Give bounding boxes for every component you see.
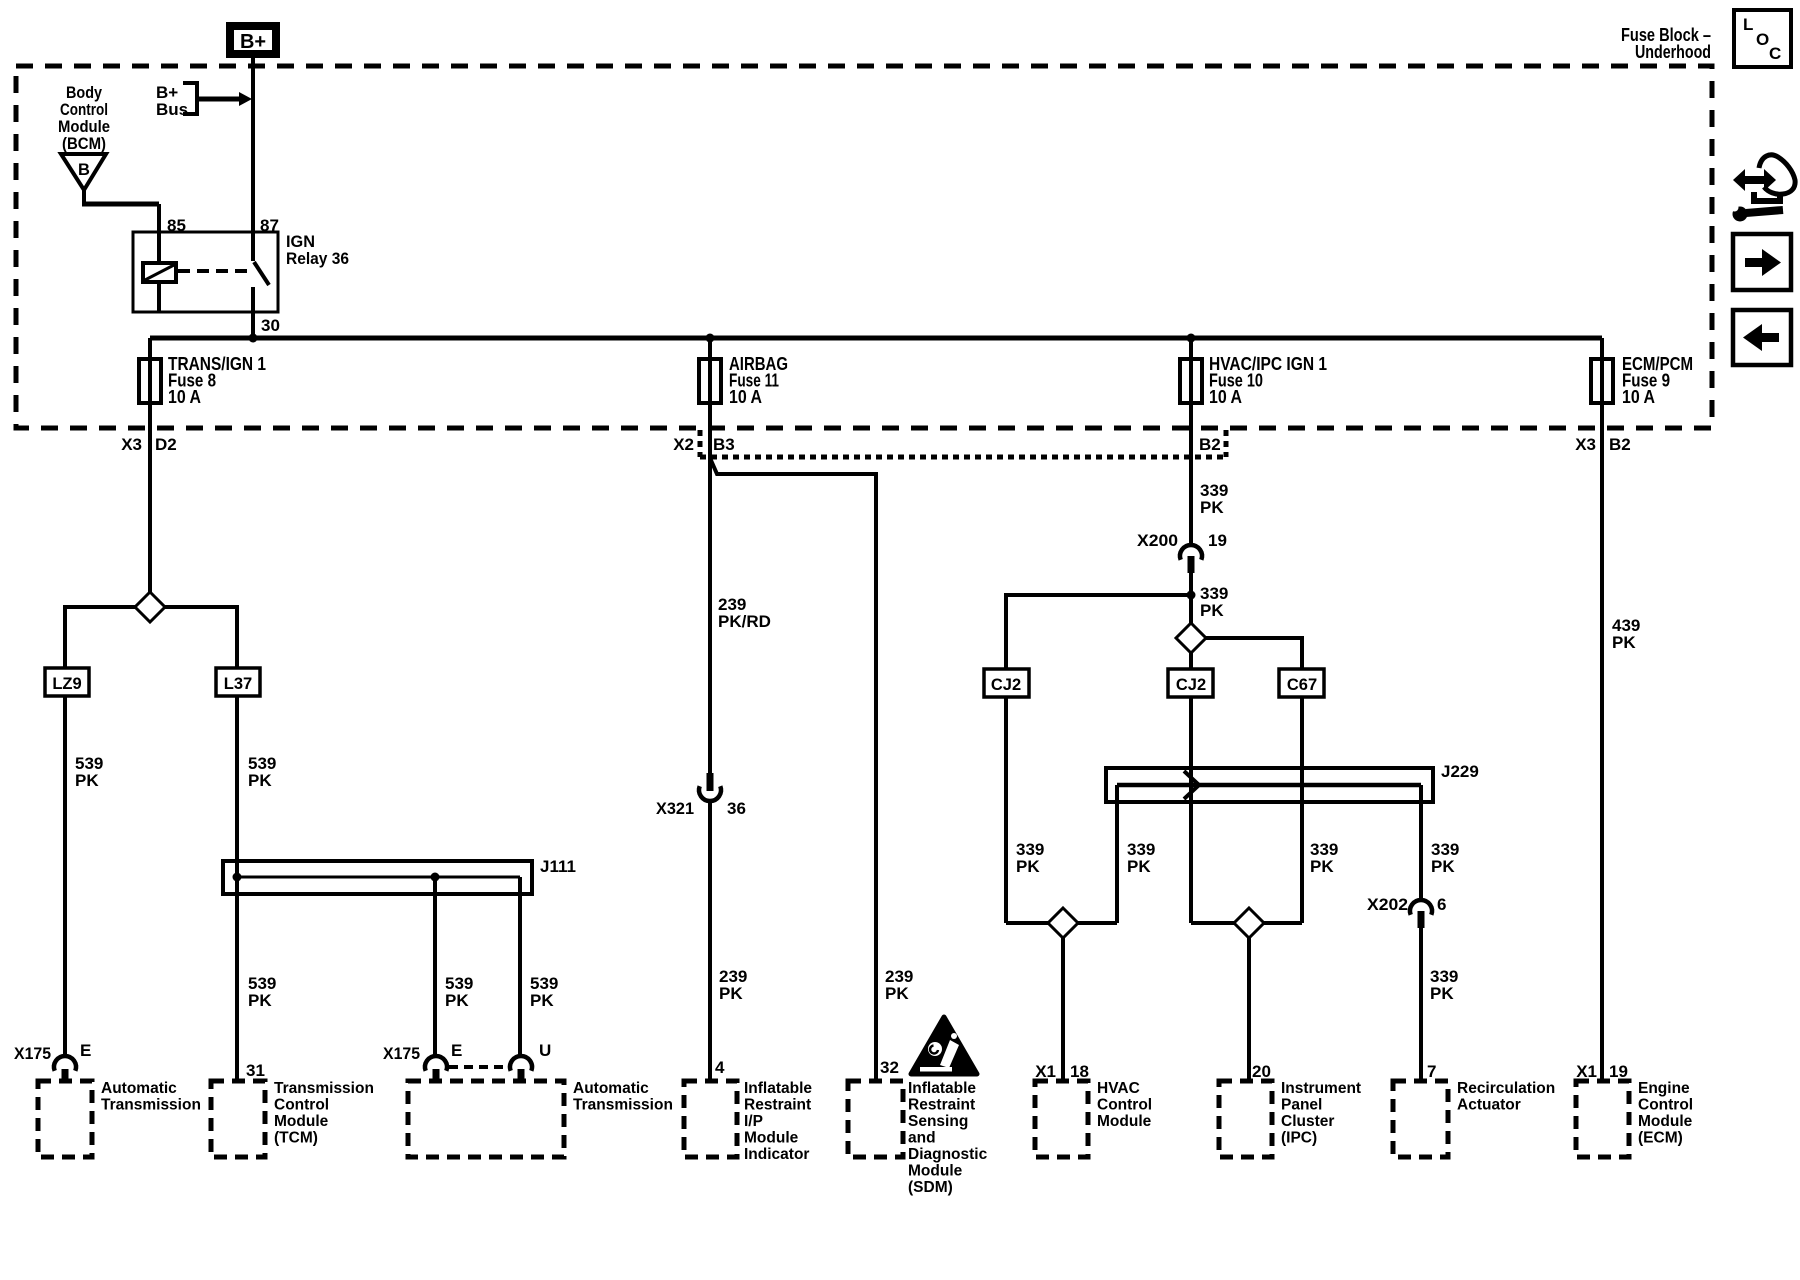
svg-text:(BCM): (BCM) [62, 134, 106, 153]
svg-text:Transmission: Transmission [573, 1097, 673, 1114]
svg-text:PK: PK [530, 991, 554, 1010]
svg-text:U: U [539, 1041, 551, 1060]
svg-text:D2: D2 [155, 435, 177, 454]
svg-text:X3: X3 [121, 435, 142, 454]
svg-text:X2: X2 [673, 435, 694, 454]
svg-text:and: and [908, 1130, 936, 1147]
svg-text:87: 87 [260, 216, 279, 235]
svg-text:4: 4 [715, 1058, 725, 1077]
svg-text:J111: J111 [540, 857, 576, 876]
svg-text:X202: X202 [1367, 895, 1408, 914]
svg-text:PK: PK [248, 991, 272, 1010]
svg-text:X321: X321 [656, 799, 694, 818]
svg-text:Module: Module [1638, 1113, 1693, 1130]
svg-text:C: C [1769, 44, 1781, 63]
svg-text:Module: Module [1097, 1113, 1152, 1130]
svg-text:10 A: 10 A [1209, 387, 1242, 407]
svg-text:PK: PK [445, 991, 469, 1010]
svg-text:Module: Module [274, 1113, 329, 1130]
svg-text:B3: B3 [713, 435, 735, 454]
svg-text:B2: B2 [1609, 435, 1631, 454]
svg-text:(SDM): (SDM) [908, 1179, 953, 1196]
svg-text:19: 19 [1609, 1062, 1628, 1081]
svg-text:X3: X3 [1575, 435, 1596, 454]
svg-text:L: L [1743, 15, 1753, 34]
svg-text:10 A: 10 A [1622, 387, 1655, 407]
svg-text:X175: X175 [14, 1044, 51, 1063]
svg-text:PK: PK [885, 984, 909, 1003]
svg-text:Control: Control [1638, 1097, 1693, 1114]
svg-text:10 A: 10 A [729, 387, 762, 407]
svg-text:PK: PK [1127, 857, 1151, 876]
svg-text:Transmission: Transmission [274, 1080, 374, 1097]
svg-text:X200: X200 [1137, 531, 1178, 550]
svg-text:Panel: Panel [1281, 1097, 1322, 1114]
svg-text:6: 6 [1437, 895, 1446, 914]
svg-text:Bus: Bus [156, 100, 188, 119]
svg-text:PK: PK [1310, 857, 1334, 876]
svg-text:Automatic: Automatic [101, 1080, 177, 1097]
svg-text:Inflatable: Inflatable [744, 1080, 812, 1097]
svg-text:32: 32 [880, 1058, 899, 1077]
svg-text:Module: Module [908, 1163, 963, 1180]
svg-text:PK: PK [1200, 601, 1224, 620]
svg-text:I/P: I/P [744, 1113, 763, 1130]
svg-text:LZ9: LZ9 [52, 675, 81, 693]
svg-text:PK: PK [248, 771, 272, 790]
svg-text:Underhood: Underhood [1635, 41, 1711, 62]
svg-text:Instrument: Instrument [1281, 1080, 1361, 1097]
svg-text:PK: PK [1430, 984, 1454, 1003]
svg-text:PK: PK [1200, 498, 1224, 517]
svg-text:Automatic: Automatic [573, 1080, 649, 1097]
svg-text:20: 20 [1252, 1062, 1271, 1081]
svg-text:B+: B+ [240, 31, 266, 53]
svg-text:Sensing: Sensing [908, 1113, 968, 1130]
svg-text:X1: X1 [1576, 1062, 1597, 1081]
svg-text:HVAC: HVAC [1097, 1080, 1140, 1097]
svg-text:(IPC): (IPC) [1281, 1130, 1317, 1147]
svg-text:L37: L37 [224, 675, 252, 693]
svg-text:(ECM): (ECM) [1638, 1130, 1683, 1147]
svg-text:Restraint: Restraint [908, 1097, 975, 1114]
svg-text:19: 19 [1208, 531, 1227, 550]
svg-text:36: 36 [727, 799, 746, 818]
svg-text:PK/RD: PK/RD [718, 612, 771, 631]
svg-text:31: 31 [246, 1061, 265, 1080]
svg-text:7: 7 [1427, 1062, 1436, 1081]
svg-text:PK: PK [1016, 857, 1040, 876]
svg-text:X175: X175 [383, 1044, 420, 1063]
svg-text:E: E [80, 1041, 91, 1060]
svg-text:B: B [78, 161, 90, 179]
svg-text:Recirculation: Recirculation [1457, 1080, 1555, 1097]
svg-text:CJ2: CJ2 [991, 676, 1021, 694]
svg-text:Diagnostic: Diagnostic [908, 1146, 988, 1163]
svg-text:O: O [1756, 30, 1769, 49]
svg-text:Control: Control [1097, 1097, 1152, 1114]
svg-text:B2: B2 [1199, 435, 1221, 454]
svg-text:CJ2: CJ2 [1176, 676, 1206, 694]
svg-text:PK: PK [719, 984, 743, 1003]
svg-text:85: 85 [167, 216, 186, 235]
svg-text:Restraint: Restraint [744, 1097, 811, 1114]
svg-text:PK: PK [1431, 857, 1455, 876]
svg-text:Actuator: Actuator [1457, 1097, 1521, 1114]
svg-text:Transmission: Transmission [101, 1097, 201, 1114]
svg-text:Engine: Engine [1638, 1080, 1690, 1097]
svg-text:18: 18 [1070, 1062, 1089, 1081]
svg-text:Relay 36: Relay 36 [286, 249, 349, 268]
svg-text:Inflatable: Inflatable [908, 1080, 976, 1097]
svg-text:30: 30 [261, 316, 280, 335]
svg-text:Indicator: Indicator [744, 1146, 809, 1163]
svg-text:(TCM): (TCM) [274, 1130, 318, 1147]
svg-text:Module: Module [744, 1130, 799, 1147]
svg-text:E: E [451, 1041, 462, 1060]
svg-text:10 A: 10 A [168, 387, 201, 407]
svg-text:Control: Control [274, 1097, 329, 1114]
svg-text:PK: PK [75, 771, 99, 790]
svg-text:X1: X1 [1035, 1062, 1056, 1081]
svg-text:PK: PK [1612, 633, 1636, 652]
svg-text:C67: C67 [1287, 676, 1317, 694]
svg-text:J229: J229 [1441, 762, 1479, 781]
svg-text:Cluster: Cluster [1281, 1113, 1334, 1130]
